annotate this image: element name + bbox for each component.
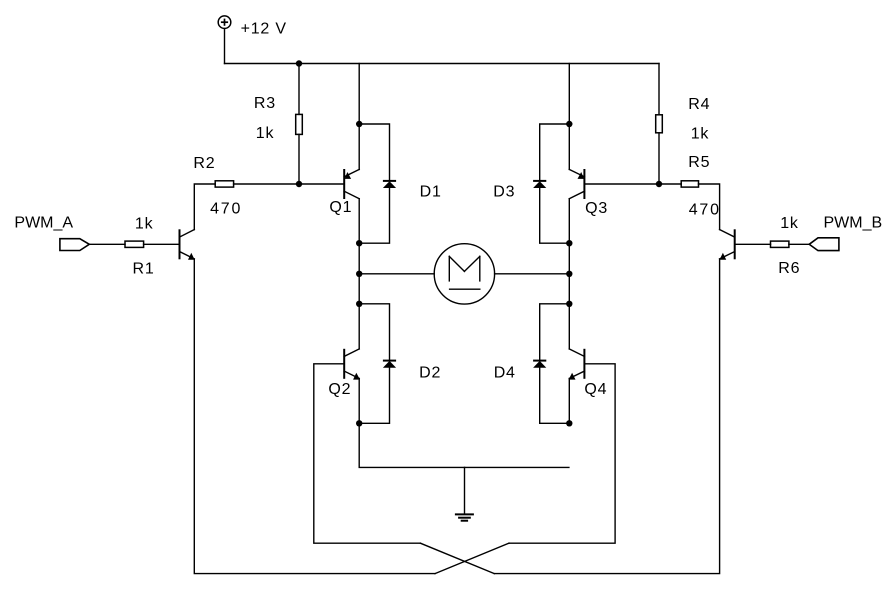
diode D2 [383,361,396,368]
diode D4 [533,361,546,368]
transistor B (input NPN, right mirrored) [720,229,735,259]
svg-text:1k: 1k [780,215,799,232]
junction R4-R5 [656,181,662,187]
svg-text:D4: D4 [494,365,516,382]
transistor Q1 (PNP) [344,169,359,199]
junction Q1-D1 bottom [356,240,362,246]
junction Q2-D2 bottom [356,420,362,426]
svg-text:Q3: Q3 [585,200,608,217]
junction motor left [356,271,362,277]
transistor A (input NPN, left) [180,229,195,259]
resistor R4 [656,64,663,185]
transistor Q3 (PNP, mirrored) [569,169,584,199]
wire Q2 emitter to ground rail [359,423,569,467]
diode D4 branch wires [540,304,570,361]
svg-text:R6: R6 [778,260,800,277]
svg-text:+12 V: +12 V [241,21,287,38]
svg-text:1k: 1k [135,216,154,233]
diode D1 branch wires [359,124,389,181]
svg-text:470: 470 [210,200,242,217]
wire Q4 emitter down [568,379,570,424]
wire PWM_A to R1 [89,243,125,245]
svg-text:R5: R5 [688,154,710,171]
junction Q4-D4 top [566,301,572,307]
diode D2 branch wires [359,304,389,361]
ground [455,514,474,520]
svg-text:Q4: Q4 [584,381,607,398]
svg-text:R1: R1 [133,260,155,277]
junction Q2-D2 top [356,301,362,307]
resistor R3 [296,64,303,185]
wire R6 to PWM_B [789,243,809,245]
wire R1 to transistor A base [144,243,180,245]
svg-text:D3: D3 [493,184,515,201]
transistor Q4 (NPN, mirrored) [569,349,585,380]
wire Q2 emitter down [358,379,360,424]
wire top rail [225,63,660,65]
svg-text:R2: R2 [193,155,215,172]
wire motor right [495,273,570,275]
junction rail-R3 [296,60,302,66]
svg-text:R4: R4 [688,96,710,113]
wire R2 to Q1 base [234,183,345,185]
wire Q3 base to R4/R5 node [584,183,659,185]
wire ground stem [464,467,466,513]
junction R3-R2 wire [296,181,302,187]
wire Q4 collector up [568,304,570,349]
wire Q1 collector down [358,199,360,304]
svg-text:D1: D1 [420,184,442,201]
svg-text:1k: 1k [256,125,275,142]
svg-text:Q2: Q2 [328,381,351,398]
power +12V symbol [218,16,231,29]
junction Q3-D3 bottom [566,240,572,246]
svg-text:R3: R3 [254,95,276,112]
wire +12V to rail [224,29,226,64]
wire bottom right run [494,259,719,574]
resistor R1 [125,241,144,247]
resistor R5 [659,181,699,187]
wire Q3 collector down [568,199,570,304]
wire Q2 collector up [358,304,360,349]
connector PWM_B [809,238,839,251]
motor M1 [434,244,494,304]
junction Q4-D4 bottom [566,420,572,426]
wire rail to Q1 emitter [358,64,360,170]
junction Q3-D3 top [566,121,572,127]
svg-text:PWM_A: PWM_A [14,215,73,232]
wire riser to Q4 base [509,364,615,543]
svg-text:D2: D2 [419,365,441,382]
svg-text:1k: 1k [691,126,710,143]
junction motor right [566,271,572,277]
diode D1 [383,181,396,188]
diode D3 [533,181,546,188]
wire R5 to transistor B collector [699,184,720,230]
svg-text:Q1: Q1 [329,199,352,216]
resistor R6 [771,241,789,247]
wire rail to Q3 emitter [568,64,570,170]
wire transistor B base to R6 [735,243,771,245]
wire Q2 base left riser [314,364,421,543]
wire motor left [359,273,434,275]
junction Q1-D1 top [356,121,362,127]
resistor R2 [215,181,233,187]
svg-text:470: 470 [689,201,721,218]
wire crossover B (up-right) [435,543,509,573]
svg-text:PWM_B: PWM_B [824,215,883,232]
connector PWM_A [60,239,89,251]
wire crossover A (down-right) [420,543,494,573]
wire transistor A emitter down [194,259,435,574]
wire transistor A collector to R2 [194,184,215,230]
transistor Q2 (NPN) [344,349,360,380]
diode D3 branch wires [540,124,570,181]
